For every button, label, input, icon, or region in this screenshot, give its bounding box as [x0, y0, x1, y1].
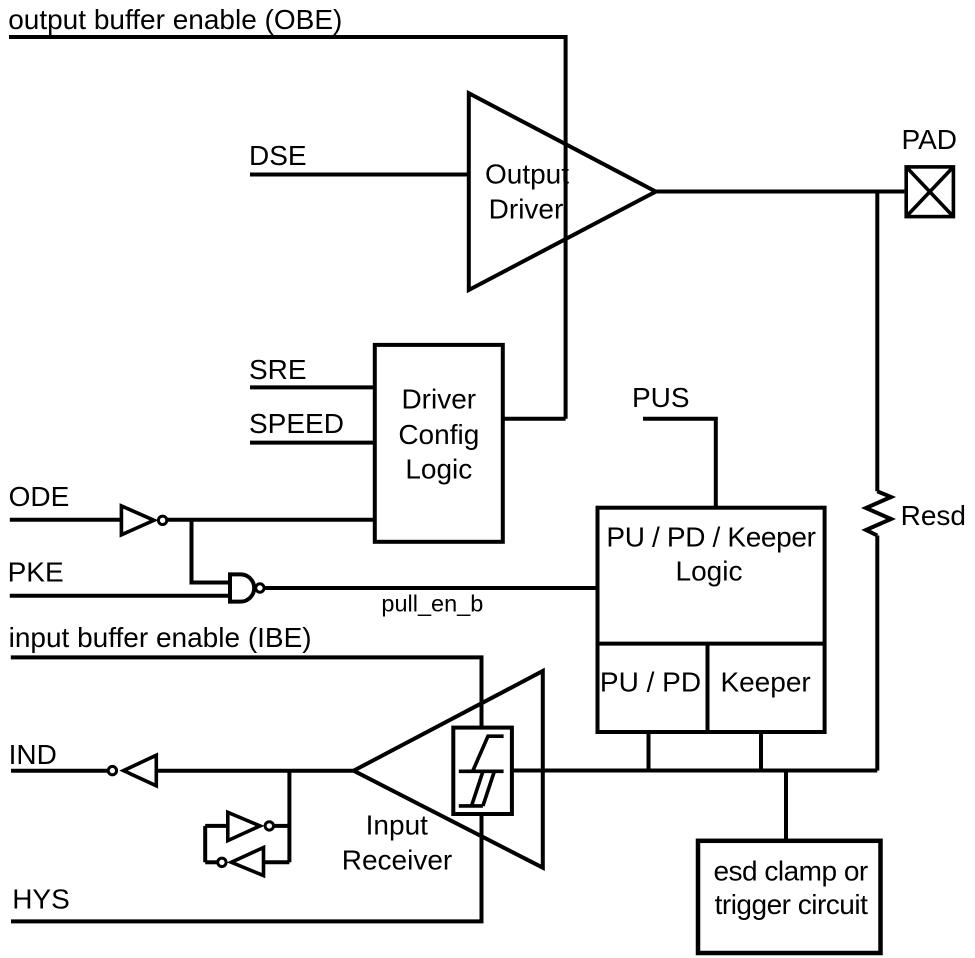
hysteresis curve lower diagonals — [472, 772, 495, 806]
svg-text:SPEED: SPEED — [249, 408, 344, 439]
wire Keeper cell stub to bus — [759, 732, 763, 771]
inverter U2 ODE — [121, 506, 154, 535]
bubble of inverter U6 — [218, 858, 226, 866]
wire PU/PD cell stub to bus — [647, 732, 651, 771]
svg-text:Keeper: Keeper — [720, 667, 810, 698]
wire IBE to hysteresis block — [11, 657, 482, 727]
svg-text:Driver: Driver — [401, 383, 476, 414]
wire latch top output — [274, 824, 289, 828]
wire receiver output to inverter U4 — [156, 769, 354, 773]
wire PKE to NAND — [10, 594, 230, 598]
wire PAD node down to Resd — [875, 192, 879, 492]
wire PUS into PU/PD/Keeper logic — [643, 419, 716, 508]
svg-text:esd clamp or: esd clamp or — [713, 855, 867, 886]
hysteresis curve upper — [473, 736, 504, 771]
wire bus stub down to esd clamp — [784, 771, 788, 841]
wire DSE to output driver — [250, 173, 469, 177]
bubble of inverter U5 — [265, 822, 273, 830]
hysteresis curve middle axis — [459, 769, 504, 773]
divider between PU/PD and Keeper cells — [706, 644, 710, 732]
svg-text:Config: Config — [398, 419, 479, 450]
label Input Receiver — [342, 810, 452, 876]
wire pull_en_b from NAND to PU/PD/Keeper logic — [265, 586, 597, 590]
bubble of nand U3 — [256, 584, 264, 592]
wire driver output to PAD — [655, 190, 904, 194]
svg-text:Resd: Resd — [901, 500, 966, 531]
svg-text:pull_en_b: pull_en_b — [381, 591, 483, 617]
svg-text:output buffer enable (OBE): output buffer enable (OBE) — [8, 4, 342, 35]
wire HYS to hysteresis block bottom — [11, 814, 482, 921]
wire SPEED — [250, 441, 375, 445]
wire Resd down to receiver input bus — [875, 536, 879, 771]
bubble of inverter U2 — [158, 516, 166, 524]
svg-text:IND: IND — [9, 739, 57, 770]
bubble of inverter U4 — [108, 766, 116, 774]
inverter U5 keeper latch top — [228, 812, 260, 840]
box hysteresis symbol — [453, 728, 512, 814]
label Output Driver — [485, 159, 569, 225]
wire inverter output to driver config logic — [168, 518, 375, 522]
svg-text:Logic: Logic — [676, 556, 743, 587]
box Driver Config Logic — [375, 345, 503, 542]
svg-text:trigger circuit: trigger circuit — [715, 889, 868, 920]
svg-text:PUS: PUS — [632, 382, 690, 413]
pad P1 bonding pad symbol — [906, 167, 953, 217]
wire IND output from inverter — [11, 769, 108, 773]
svg-text:PAD: PAD — [902, 124, 958, 155]
nand gate U3 — [230, 574, 254, 601]
svg-text:Input: Input — [366, 810, 428, 841]
box PU/PD/Keeper Logic — [598, 508, 825, 732]
wire junction branch down to NAND input — [192, 520, 231, 583]
label PU / PD / Keeper Logic — [606, 522, 815, 587]
svg-text:DSE: DSE — [249, 140, 307, 171]
svg-text:PU / PD: PU / PD — [600, 667, 701, 698]
divider of PU/PD/Keeper box — [598, 642, 825, 646]
wire SRE — [250, 385, 375, 389]
svg-text:input buffer enable (IBE): input buffer enable (IBE) — [9, 622, 312, 653]
svg-text:SRE: SRE — [249, 354, 307, 385]
wire ODE into inverter — [10, 518, 122, 522]
wire OBE horizontal+vertical to driver enable — [9, 37, 566, 419]
inverter U6 keeper latch bottom — [231, 848, 263, 876]
svg-text:Output: Output — [485, 159, 569, 190]
svg-text:HYS: HYS — [12, 883, 70, 914]
svg-text:ODE: ODE — [9, 481, 70, 512]
label Driver Config Logic — [398, 383, 479, 484]
wire receiver input bus from hysteresis block to Resd node — [512, 769, 877, 773]
wire latch feedback vertical from IND line — [287, 771, 291, 863]
svg-text:Driver: Driver — [489, 194, 564, 225]
svg-text:PU / PD / Keeper: PU / PD / Keeper — [606, 522, 815, 553]
op-amp U1 output driver triangle — [469, 93, 656, 290]
wire latch bottom input — [264, 860, 290, 864]
wire latch top input — [205, 824, 228, 828]
wire driver config output to OBE vertical — [503, 417, 566, 421]
wire latch bottom output to left vertical — [205, 860, 217, 864]
hysteresis curve lower base — [459, 804, 483, 808]
wire latch left vertical — [203, 826, 207, 862]
svg-text:Logic: Logic — [405, 454, 472, 485]
resistor Resd — [866, 491, 891, 535]
svg-text:PKE: PKE — [8, 556, 64, 587]
svg-text:Receiver: Receiver — [342, 845, 452, 876]
op-amp U7 input receiver triangle — [354, 671, 543, 868]
inverter U4 IND output — [124, 755, 157, 786]
label esd clamp or trigger circuit — [713, 855, 868, 920]
box esd clamp or trigger circuit — [698, 841, 881, 953]
